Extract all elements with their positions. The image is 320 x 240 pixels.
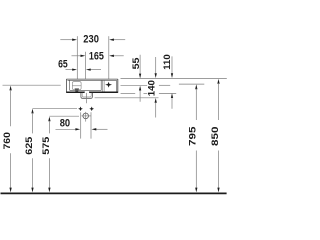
svg-text:55: 55: [131, 57, 142, 70]
svg-text:575: 575: [41, 136, 52, 155]
svg-text:850: 850: [210, 126, 221, 146]
svg-text:625: 625: [24, 136, 35, 155]
svg-text:795: 795: [188, 126, 199, 146]
svg-text:65: 65: [58, 58, 68, 70]
svg-text:80: 80: [60, 118, 70, 130]
svg-text:110: 110: [162, 54, 173, 70]
svg-text:140: 140: [146, 80, 157, 96]
svg-text:165: 165: [89, 50, 104, 62]
svg-text:230: 230: [83, 34, 99, 46]
svg-text:760: 760: [2, 132, 13, 149]
